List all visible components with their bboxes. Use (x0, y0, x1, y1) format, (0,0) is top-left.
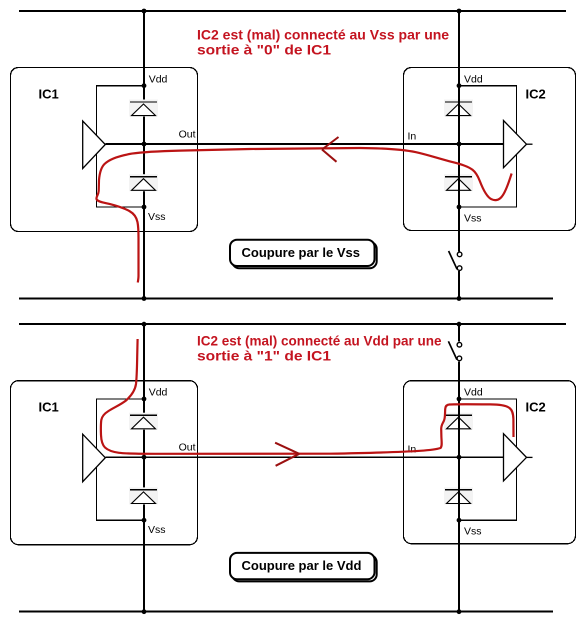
svg-text:Coupure par le Vss: Coupure par le Vss (242, 245, 360, 260)
svg-text:IC2 est (mal) connecté au Vss: IC2 est (mal) connecté au Vss par une (197, 26, 449, 42)
svg-text:sortie à "0" de IC1: sortie à "0" de IC1 (197, 42, 331, 58)
svg-text:IC2 est (mal) connecté au Vdd: IC2 est (mal) connecté au Vdd par une (197, 332, 442, 348)
svg-text:Coupure par le Vdd: Coupure par le Vdd (242, 558, 362, 573)
svg-text:sortie à "1" de IC1: sortie à "1" de IC1 (197, 348, 331, 364)
